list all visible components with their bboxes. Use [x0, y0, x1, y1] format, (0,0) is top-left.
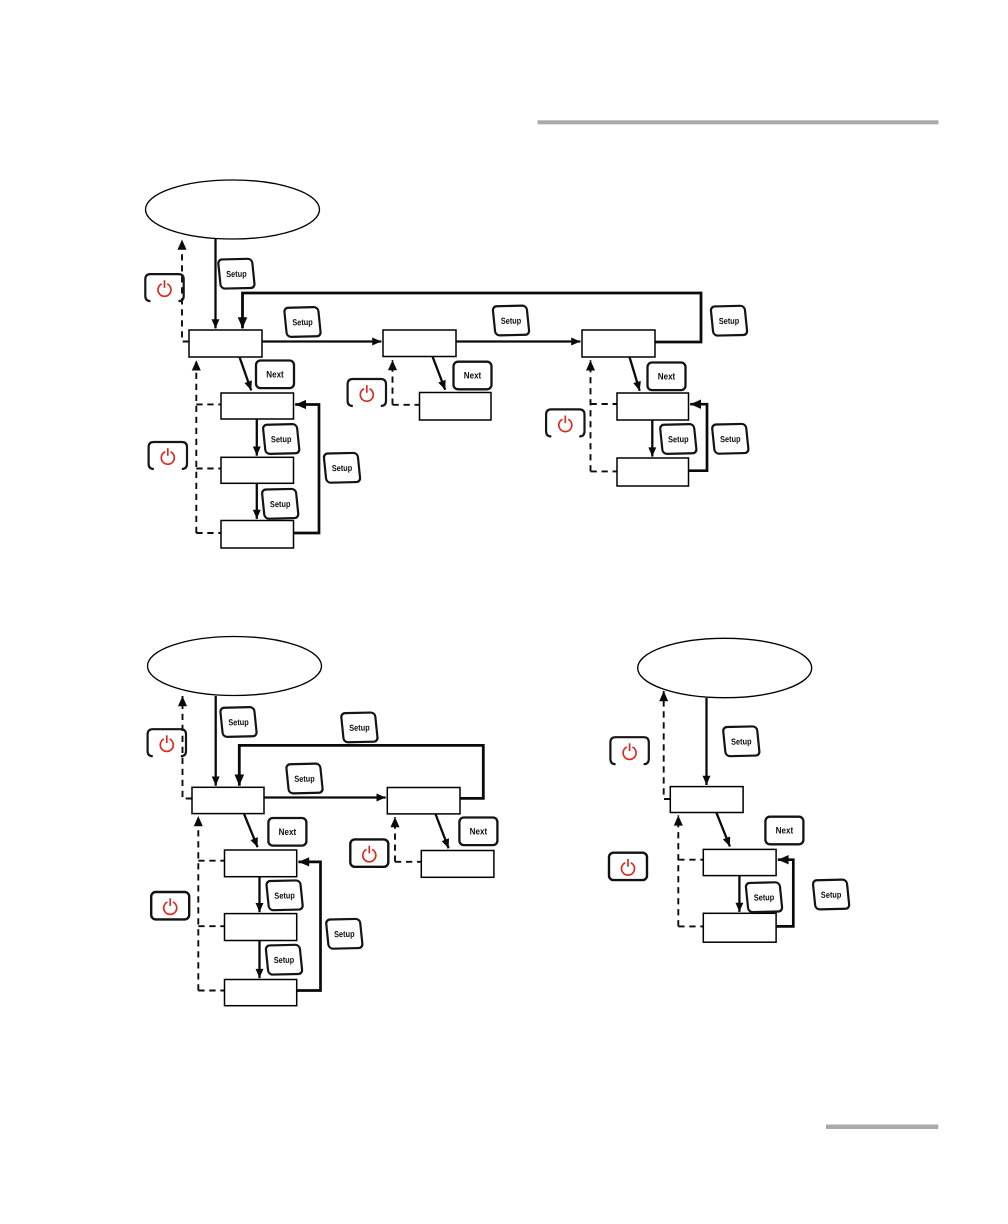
wire arrow RB3 to RB4: [258, 877, 260, 912]
header rule: [538, 120, 939, 124]
wire dashed riser col2 D1: [392, 360, 394, 405]
Setup key S17: [746, 882, 783, 912]
wire feedback loop col3 D1: [689, 404, 708, 471]
Setup key S12: [341, 712, 378, 742]
Setup key S13: [266, 880, 303, 910]
Setup key S18: [813, 879, 850, 909]
Setup key S16: [723, 726, 760, 756]
box R6: [420, 393, 492, 421]
power button P1: [145, 274, 183, 301]
wire diag arrow R2 to R6: [433, 357, 446, 390]
wire dashed stub R3: [196, 403, 221, 405]
wire dashed stub RB3: [198, 860, 224, 862]
box R4: [221, 457, 294, 483]
wire arrow ellipse1 to box R1: [214, 238, 216, 328]
ellipse D3 start: [638, 638, 812, 697]
box R8: [617, 393, 689, 420]
wire arrow R3 to R4: [256, 419, 258, 456]
power button P6: [151, 892, 189, 919]
Next key N1: [256, 361, 294, 389]
wire diag arrow RB1 to RB3: [244, 814, 258, 847]
wire dashed return RB1 to ellipse2: [183, 696, 193, 799]
box RB4: [225, 914, 297, 941]
Setup key S9: [712, 424, 749, 454]
box R5: [221, 521, 294, 549]
wire dashed stub R6: [393, 404, 420, 406]
box RC3: [703, 913, 776, 942]
box RC2: [703, 849, 776, 875]
power button P8: [610, 737, 648, 764]
wire feedback loop top D1: [243, 293, 702, 342]
wire arrow ellipse2 to box RB1: [215, 696, 217, 786]
wire feedback loop top D2: [239, 745, 483, 798]
Setup key S5: [263, 424, 300, 454]
wire arrow RB1 to RB2: [264, 796, 386, 798]
box R3: [221, 393, 294, 419]
wire dashed riser col1 D1: [195, 360, 197, 533]
box RC1: [670, 787, 743, 813]
wire diag arrow RB2 to RB6: [436, 814, 449, 848]
box RB5: [225, 980, 297, 1006]
wire dashed return R1 to ellipse1: [182, 240, 189, 342]
wire arrow R1 to R2: [262, 340, 381, 342]
wire arrow R8 to R9: [651, 420, 653, 456]
wire dashed stub RC3: [678, 925, 703, 927]
Setup key S6: [262, 489, 299, 519]
wire dashed stub RC2: [678, 859, 703, 861]
wire dashed stub R8: [591, 403, 618, 405]
ellipse D2 start: [148, 637, 322, 696]
wire dashed riser D3: [677, 815, 679, 926]
box R1: [189, 330, 262, 357]
Next key N5: [459, 818, 497, 846]
Setup key S2: [284, 307, 321, 337]
Next key N2: [454, 362, 492, 390]
power button P5: [148, 729, 186, 756]
wire diag arrow R7 to R8: [630, 357, 640, 391]
wire arrow R2 to R7: [456, 340, 580, 342]
wire dashed return RC1 to ellipse3: [664, 691, 671, 799]
wire feedback loop col1 D1: [294, 405, 320, 534]
wire dashed stub RB4: [198, 925, 224, 927]
box RB3: [225, 850, 297, 877]
wire dashed stub R9: [591, 470, 618, 472]
Next key N6: [765, 817, 803, 845]
Setup key S3: [493, 305, 530, 335]
wire dashed stub RB5: [198, 990, 224, 992]
ellipse D1 start: [146, 180, 320, 239]
Setup key S11: [286, 763, 323, 793]
power button P7: [350, 839, 388, 866]
power button P4: [546, 409, 584, 436]
wire diag arrow RC1 to RC2: [716, 813, 730, 847]
Setup key S15: [326, 919, 363, 949]
box R7: [582, 330, 655, 357]
power button P9: [609, 853, 647, 880]
wire arrow RB4 to RB5: [258, 941, 260, 978]
wire arrow RC2 to RC3: [738, 876, 740, 912]
wire arrow R4 to R5: [256, 484, 258, 519]
box R9: [617, 458, 689, 486]
box RB2: [387, 788, 460, 814]
power button P3: [348, 379, 386, 406]
wire feedback loop col1 D2: [297, 862, 321, 991]
wire arrow ellipse3 to box RC1: [705, 698, 707, 785]
wire diag arrow R1 to R3: [240, 357, 252, 390]
wire dashed stub R5: [196, 532, 221, 534]
Next key N3: [648, 363, 686, 391]
wire dashed stub R4: [196, 468, 221, 470]
Setup key S4: [711, 306, 748, 336]
box RB1: [192, 787, 264, 813]
Setup key S8: [660, 424, 697, 454]
box RB6: [421, 851, 494, 878]
power button P2: [149, 442, 187, 469]
Setup key S7: [324, 453, 361, 483]
Setup key S1: [218, 259, 255, 289]
Setup key S14: [266, 945, 303, 975]
wire dashed riser col2 D2: [394, 817, 396, 862]
wire feedback loop D3: [776, 860, 793, 927]
Next key N4: [268, 818, 306, 846]
wire dashed riser col1 D2: [197, 816, 199, 991]
wire dashed riser col3 D1: [590, 360, 592, 471]
box R2: [383, 330, 456, 357]
footer rule: [826, 1125, 938, 1130]
wire dashed stub RB6: [395, 861, 421, 863]
Setup key S10: [220, 707, 257, 737]
